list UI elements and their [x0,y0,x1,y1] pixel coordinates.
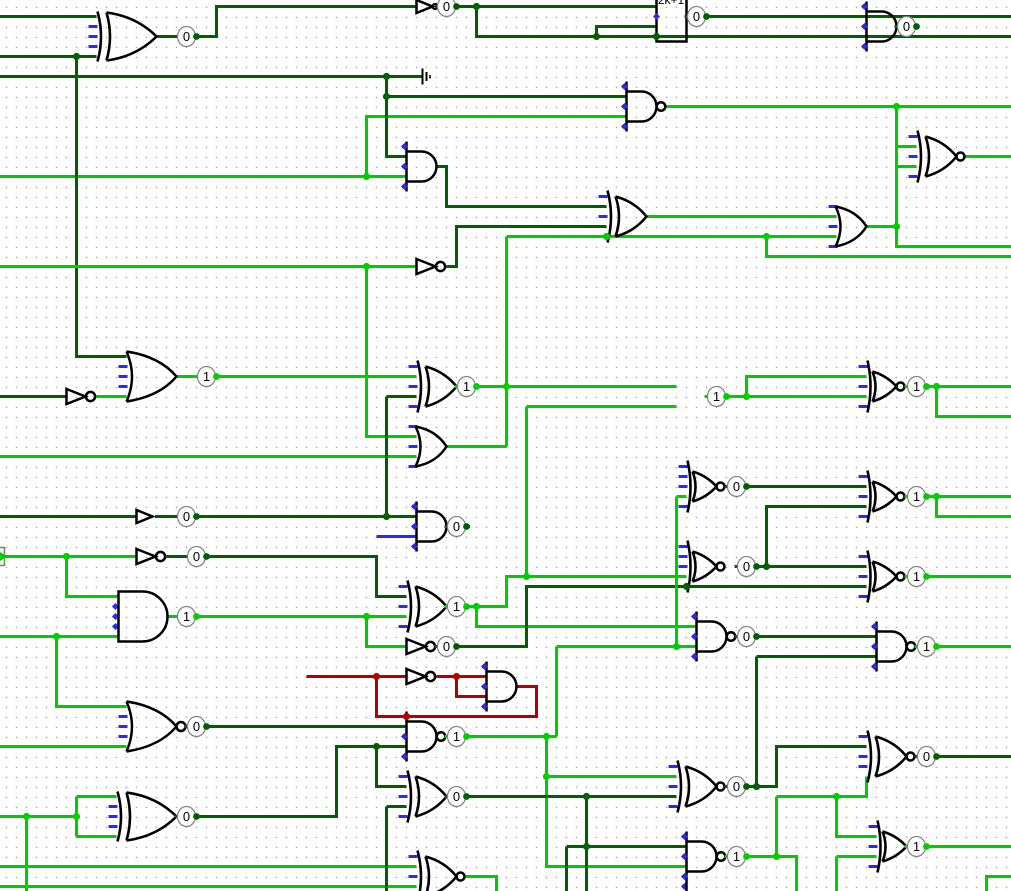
junction x76 row56 [73,53,80,60]
junction x386 row96 [383,93,390,100]
wire AND3 output nub row526 [447,525,471,528]
wire XOR-P1 output row386 to AND-mid input [457,385,677,388]
probe AND3 output value 0 [445,525,467,528]
wire branch row516 to edge [937,497,1011,517]
junction x836 row796 [833,793,840,800]
xor gate XOR-mid [599,195,608,198]
wire XOR-H input split vertical [75,797,78,837]
probe NOT2 output value 0 [185,555,207,558]
wire row866 to XNOR-J input [0,865,417,868]
wire AND-mid output row396 to XNOR-E1 input [707,395,867,398]
junction error x456 row676 [453,673,460,680]
wire error loop to AND-K output [377,677,537,717]
junction x676 row646 [673,643,680,650]
probe XNOR-B output value 0 [735,565,757,568]
buffer gate BUF1 [137,510,153,523]
junction XNOR-B pin row586 [683,583,690,590]
nand gate NAND-H2 [405,712,408,762]
not gate NOT4-error [407,669,426,684]
svg-text:0: 0 [443,639,450,654]
wire row56 to XOR1 input [0,55,97,58]
wire error row676 to NOT4 input [307,675,407,678]
svg-text:0: 0 [743,629,750,644]
wire row776 to XNOR-L input [547,775,677,778]
wire row406 to AND-mid input [527,405,677,408]
nand gate NAND-F [875,622,878,672]
wire row16 to XOR1 input [0,15,97,18]
wire XNOR-TR output row156 [965,155,1011,158]
svg-text:0: 0 [743,559,750,574]
svg-text:1: 1 [913,569,920,584]
probe XNOR-E1 output value 1 [905,385,927,388]
wire branch x66 to AND-big input row596 [67,557,118,597]
xor gate XOR3 [399,585,408,588]
wire vertical x556 [555,647,558,737]
probe NAND-M output value 1 [725,855,747,858]
nand gate NAND1 [625,82,628,132]
wire XNOR-N output row756 to edge [937,755,1011,758]
wire x836 to bottom edge [835,857,838,891]
wire XNOR-E1 output row386 to edge [927,385,1011,388]
xnor gate XNOR-N [859,735,868,738]
wire AND-big output row616 to XOR3 input [167,615,407,618]
wire XNOR-L output row786 jog to XNOR-N input row746 [747,747,867,787]
probe XOR-H output value 0 [175,815,197,818]
svg-text:0: 0 [183,509,190,524]
probe XNOR-N output value 0 [915,755,937,758]
xor gate XOR-H [109,805,118,808]
wire XNOR-A output row486 to XNOR-D input [747,485,867,488]
junction x386 row516 [383,513,390,520]
junction x936 row496 [933,493,940,500]
probe XOR-O output value 1 [905,845,927,848]
probe NAND-C output value 0 [735,635,757,638]
junction x766 row566 [763,563,770,570]
xor gate XOR1 top-left [89,25,98,28]
wire XOR3 output row606 jog to row576 to XNOR-B input [447,577,687,607]
not gate NOT-left [67,389,86,404]
wire vertical x676 [675,497,678,647]
wire XNOR-J output down to bottom edge [465,877,497,891]
wire NAND-F output row646 to edge [937,645,1011,648]
ground symbol [422,69,424,85]
wire vertical x386 mid [385,397,388,517]
wire overlay bright x676 over row586 [675,579,678,594]
probe XOR-P1 output value 1 [455,385,477,388]
probe NOR-G output value 0 [185,725,207,728]
wire vertical x566 to bottom edge [565,847,568,891]
wire subcircuit output row16 to edge [707,15,1011,18]
junction x766 row236 [763,233,770,240]
xnor gate XNOR-D [859,475,868,478]
wire branch x366 to NOT3 input row646 [367,617,407,647]
svg-text:0: 0 [733,479,740,494]
wire row396 to XOR-P1 input [387,395,417,398]
wire floating blue row536 to AND3 input [377,535,417,538]
junction x586 row796 [583,793,590,800]
wire row96 to NAND1 input [387,95,627,98]
junction error NAND-H2 pin row716 [403,713,410,720]
svg-text:1: 1 [913,489,920,504]
junction x746 row396 [743,393,750,400]
wire row806 to XOR-I input [387,805,407,808]
wire XNOR-TR input row166 [897,165,917,168]
junction x56 row636 [53,633,60,640]
wire XNOR-TR input row146 [897,145,917,148]
junction error x376 row676 [373,673,380,680]
svg-text:2k+1: 2k+1 [658,0,685,7]
svg-text:0: 0 [733,779,740,794]
junction x76 row816 [73,813,80,820]
nand gate NAND-C [695,612,698,662]
wire branch x836 to XOR-O input row836 [837,797,877,837]
wire branch x56 to NOR-G input row706 [57,637,127,707]
svg-text:0: 0 [193,549,200,564]
probe XNOR-E2 output value 1 [905,575,927,578]
svg-text:1: 1 [203,369,210,384]
wire row656 to NAND-F input [757,655,877,658]
wire NAND1 output row106 [667,105,1011,108]
svg-text:1: 1 [733,849,740,864]
and gate AND-TR top-right [865,2,868,52]
junction x386 row76 [383,73,390,80]
wire NOT3 output row646 jog to row586 to XNOR-E2 input [457,587,867,647]
xnor gate XNOR-L [669,765,678,768]
wire OR-P2 output row446 [447,445,507,448]
wire row516 to buffer input [0,515,137,518]
svg-text:1: 1 [453,599,460,614]
junction x66 row556 [63,553,70,560]
wire branch row626 to NAND-C input [477,607,697,627]
svg-text:0: 0 [453,789,460,804]
wire branch row416 to edge [937,387,1011,417]
wire vertical x506 [505,237,508,447]
probe XOR-I output value 0 [445,795,467,798]
wire net1 row176 to AND2 input [0,175,407,178]
wire vertical x386 to AND2 input row156 [387,77,407,157]
wire branch to XOR-I input row786 [377,747,407,787]
probe XOR1 output value 0 [175,35,197,38]
wire OR output row226 [867,225,897,228]
wire XOR-H output row816 jog to NAND-H2 input row746 [197,747,407,817]
and gate AND2 [405,142,408,192]
wire vertical x896 taps XNOR-TR and OR output, row246 to edge [897,107,1011,247]
xnor gate XNOR-A [679,465,688,468]
wire vertical x386 to bottom edge [385,807,388,891]
xnor gate XNOR-B [679,545,688,548]
junction x376 row746 [373,743,380,750]
nand gate NAND-M input line extension [685,882,688,891]
xor gate XOR-I [399,775,408,778]
probe subcircuit output value 0 [685,15,707,18]
wire NOT-left output row396 [97,395,127,398]
wire branch row376 to XNOR-E1 input [747,377,867,397]
or gate OR-P2 [409,425,418,428]
wire row646 to NAND-C input [557,645,697,648]
svg-text:0: 0 [183,809,190,824]
wire NOR-G output row726 to NAND-H2 input [207,725,407,728]
wire XNOR-B output row566 to XNOR-E2 input [757,565,867,568]
nor gate NOR-G [119,715,128,718]
junction x526 row576 [523,573,530,580]
svg-text:0: 0 [923,749,930,764]
junction x366 row266 [363,263,370,270]
wire row456 to OR-P2 input [0,455,417,458]
probe NOT3 output value 0 [435,645,457,648]
wire XOR-O output row846 to edge [927,845,1011,848]
wire vertical x366 to OR-P2 input row436 [367,267,417,437]
probe NOT-top output value 0 [435,5,457,8]
wire XOR-H bottom input row836 [77,835,117,838]
wire row846 to NAND-M input [567,845,687,848]
probe NAND-H2 output value 1 [445,735,467,738]
svg-text:0: 0 [443,0,450,14]
svg-text:1: 1 [913,839,920,854]
wire row816 to XOR-H split [0,815,77,818]
wire NAND-C output row636 to NAND-F input [757,635,877,638]
wire branch row696 to AND-K input [457,677,487,697]
wire NAND-H2 output row736 [467,735,557,738]
wire OR-left output row376 to XOR-P1 input [177,375,417,378]
junction x586 row846 [583,843,590,850]
wire row796 up to XNOR-N input [777,777,867,797]
junction XOR-mid pin row236 [603,233,610,240]
svg-text:1: 1 [713,389,720,404]
wire branch row36 to edge [477,7,1011,37]
wire branch x546 to NAND-M input row866 [547,737,687,867]
wire XOR-H top input row796 [77,795,117,798]
xor gate XOR-O [869,825,878,828]
wire net1 branch row116 to NAND1 input [367,117,627,177]
wire NOT4 output row676 to AND-K input [437,675,487,678]
junction x896 row226 [893,223,900,230]
wire row266 to NOT input [0,265,417,268]
junction subcircuit pin row36 [653,33,660,40]
wire row76 to ground symbol [0,75,422,78]
xnor gate XNOR-E1 [859,365,868,368]
junction x936 row386 [933,383,940,390]
or gate OR-right [829,205,838,208]
not gate NOT-mid [417,259,436,274]
probe XNOR-D output value 1 [905,495,927,498]
wire XOR-I output row796 to XNOR-L input [467,795,677,798]
svg-text:1: 1 [183,609,190,624]
probe AND-TR output value 0 [895,25,917,28]
probe OR-left output value 1 [195,375,217,378]
probe BUF1 output value 0 [175,515,197,518]
wire XOR-mid output row216 to OR gate [647,215,837,218]
wire bottom right corner row876 [987,877,1011,891]
svg-text:1: 1 [453,729,460,744]
wire row496 to XNOR-A input [677,495,687,498]
junction x506 row386 [503,383,510,390]
nand gate NAND-M [685,832,688,882]
wire branch x26 to bottom edge [25,817,28,891]
probe NAND-F output value 1 [915,645,937,648]
probe AND-big output value 1 [175,615,197,618]
wire row236 to OR gate input [507,235,837,238]
junction x896 row106 [893,103,900,110]
probe AND-mid output value 1 [705,395,727,398]
junction x546 row736 [543,733,550,740]
junction x366 row616 [363,613,370,620]
not gate NOT2 [137,549,156,564]
wire row886 to XNOR-J input [0,885,417,888]
svg-text:0: 0 [193,719,200,734]
wire NOT-top output row6 to subcircuit pin [457,5,657,8]
not gate NOT-top [417,0,433,13]
wire row396 to NOT-left input [0,395,67,398]
xnor gate XNOR-TR [909,135,918,138]
wire XNOR-D output row496 to edge [927,495,1011,498]
subcircuit box 2k+1 [657,0,687,42]
wire overlay bright row266 over x76 [69,265,84,268]
and gate AND-K [485,662,488,712]
wire XOR1 output row36 jog to row6 to NOT-top input [157,7,417,37]
and gate AND3 [415,502,418,552]
junction x476 row6 [473,3,480,10]
wire AND2 output jog to row206 XOR-mid input [437,167,607,207]
junction x546 row776 [543,773,550,780]
junction x26 row816 [23,813,30,820]
or gate OR-left [119,365,128,368]
not gate NOT3 [407,639,426,654]
svg-text:0: 0 [693,9,700,24]
junction x596 row36 [593,33,600,40]
wire input pin row556 to NOT2 [5,555,137,558]
svg-text:1: 1 [923,639,930,654]
wire vertical x76 to OR-left input row356 [77,57,127,357]
wire vertical x586 to bottom edge [585,797,588,891]
probe XOR3 output value 1 [445,605,467,608]
xor gate XOR-P1 [409,365,418,368]
wire NOT-mid output jog to row226 XOR-mid input [447,227,607,267]
junction x476 row606 [473,603,480,610]
junction x776 row856 [773,853,780,860]
svg-text:0: 0 [903,19,910,34]
wire NAND-M output row856 down to edge [747,857,797,891]
svg-text:0: 0 [453,519,460,534]
junction x366 row176 [363,173,370,180]
wire NOT2 output row556 jog to XOR3 input row596 [167,557,407,597]
and gate AND-big [113,605,118,608]
wire branch row256 to edge [767,237,1011,257]
wire row636 to AND-big input [0,635,118,638]
wire jog row26 to subcircuit pin [597,27,657,37]
svg-text:1: 1 [913,379,920,394]
junction x756 row786 [753,783,760,790]
wire vertical x526 [525,407,528,577]
wire vertical x756 [755,657,758,787]
wire buffer output row516 to AND3 input [155,515,417,518]
wire XNOR-E2 output row576 to edge [927,575,1011,578]
input pin component [0,548,5,566]
svg-text:0: 0 [183,29,190,44]
wire branch row506 to XNOR-D input [767,507,867,567]
wire row746 to NOR-G input [0,745,127,748]
probe XNOR-L output value 0 [725,785,747,788]
xnor gate XNOR-E2 [859,555,868,558]
probe XNOR-A output value 0 [725,485,747,488]
svg-text:1: 1 [463,379,470,394]
xnor gate XNOR-J [409,855,418,858]
wire vertical x776 [775,797,778,857]
wire row856 to XOR-O input [837,855,877,858]
